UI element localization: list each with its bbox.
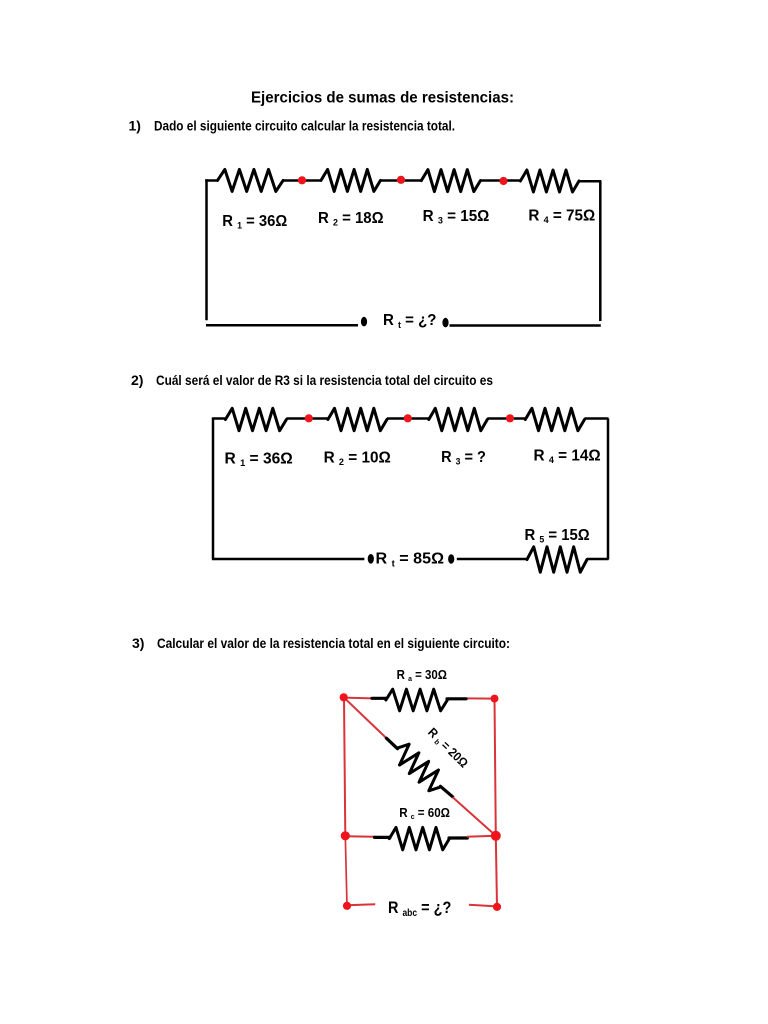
resistor R5 (15 ohm) <box>527 547 587 572</box>
svg-text:R t = 85Ω: R t = 85Ω <box>376 551 445 570</box>
svg-text:R t = ¿?: R t = ¿? <box>383 312 437 331</box>
node: red junction dot 3 <box>506 414 514 422</box>
wire: black lead right of Ra <box>447 697 466 700</box>
resistor R3 (unknown) <box>429 408 488 430</box>
resistor Ra (30 ohm) <box>386 689 448 711</box>
wire: circuit 2 top-left segment <box>212 417 225 420</box>
wire: circuit 2 left vertical <box>212 418 215 560</box>
node: red junction dot 1 <box>298 176 306 184</box>
svg-text:R 3 = 15Ω: R 3 = 15Ω <box>423 208 490 227</box>
svg-text:R 2 = 18Ω: R 2 = 18Ω <box>318 210 384 229</box>
wire: red bottom-right segment <box>469 905 497 907</box>
wire: red lead left of Ra <box>344 697 373 700</box>
wire: red lead left of Rc <box>345 835 375 838</box>
wire: circuit 1 segment R3-R4 <box>480 179 520 182</box>
wire: black lead right of Rc <box>449 836 467 839</box>
wire: red lead right of Rc <box>467 836 496 837</box>
svg-text:R 3 = ?: R 3 = ? <box>441 449 486 468</box>
svg-text:Dado el siguiente circuito cal: Dado el siguiente circuito calcular la r… <box>154 118 455 134</box>
wire: circuit 2 bottom-right segment <box>587 558 609 561</box>
wire: red bottom-left segment <box>347 904 375 905</box>
wire: black lead lower of Rb <box>440 786 452 797</box>
wire: red diagonal lower (Rb to node) <box>453 797 496 836</box>
wire: circuit 1 bottom-left segment <box>206 324 358 327</box>
resistor R3 (15 ohm) <box>421 170 480 192</box>
wire: black lead upper of Rb <box>386 738 397 749</box>
node: red junction dot 1 <box>305 414 313 422</box>
wire: circuit 2 segment R1-R2 <box>286 417 328 420</box>
wire: circuit 1 segment R2-R3 <box>380 179 421 182</box>
wire: red left vertical upper <box>344 697 345 836</box>
wire: circuit 1 top-left segment <box>205 179 218 182</box>
wire: circuit 2 right vertical <box>607 419 610 560</box>
node: terminal dot right (Rt) <box>442 318 448 328</box>
svg-text:R 4 = 14Ω: R 4 = 14Ω <box>534 447 601 466</box>
svg-text:R a = 30Ω: R a = 30Ω <box>397 668 447 683</box>
wire: circuit 2 bottom-left segment <box>212 558 364 561</box>
wire: black lead left of Rc <box>375 836 390 839</box>
wire: black lead left of Ra <box>372 697 387 700</box>
node: red dot bottom-left <box>343 902 351 910</box>
svg-text:R 1 = 36Ω: R 1 = 36Ω <box>222 213 287 232</box>
wire: circuit 2 segment R3-R4 <box>487 417 525 420</box>
svg-text:R b = 20Ω: R b = 20Ω <box>424 725 470 771</box>
node: terminal dot left (Rt) <box>361 317 367 327</box>
svg-text:1): 1) <box>129 118 141 134</box>
resistor R4 (14 ohm) <box>525 408 584 430</box>
svg-text:Ejercicios de sumas de resiste: Ejercicios de sumas de resistencias: <box>251 90 514 107</box>
svg-text:Calcular el valor de la resist: Calcular el valor de la resistencia tota… <box>157 635 510 651</box>
node: terminal dot right (Rt) <box>448 554 454 564</box>
resistor R4 (75 ohm) <box>520 170 579 192</box>
resistor R2 (18 ohm) <box>321 169 381 191</box>
resistor R1 (36 ohm) <box>225 408 286 430</box>
wire: red diagonal upper (to Rb) <box>344 697 388 739</box>
node: red dot top-left <box>340 693 348 701</box>
wire: red right vertical upper <box>495 699 496 836</box>
wire: circuit 1 top-right segment <box>579 180 601 183</box>
svg-text:R 4 = 75Ω: R 4 = 75Ω <box>528 207 595 226</box>
resistor Rb (20 ohm, diagonal) <box>390 740 448 795</box>
wire: red left vertical lower <box>345 836 347 906</box>
svg-text:Cuál será el valor de R3 si la: Cuál será el valor de R3 si la resistenc… <box>156 372 493 388</box>
node: red junction dot 2 <box>397 176 405 184</box>
wire: circuit 1 right vertical <box>599 181 602 322</box>
node: red junction dot 2 <box>404 414 412 422</box>
svg-text:R 2 = 10Ω: R 2 = 10Ω <box>324 450 391 469</box>
svg-text:R 5 = 15Ω: R 5 = 15Ω <box>525 527 590 546</box>
wire: circuit 1 segment R1-R2 <box>283 179 321 182</box>
node: red junction dot 3 <box>499 177 507 185</box>
node: red dot top-right <box>491 695 499 703</box>
resistor Rc (60 ohm) <box>389 827 449 849</box>
svg-text:R 1 = 36Ω: R 1 = 36Ω <box>225 451 293 470</box>
resistor R1 (36 ohm) <box>218 169 284 191</box>
node: terminal dot left (Rt) <box>368 554 374 564</box>
wire: circuit 2 top-right segment <box>585 417 609 420</box>
node: red dot mid-left <box>341 831 350 840</box>
svg-text:R abc = ¿?: R abc = ¿? <box>388 898 451 919</box>
label Rb = 20Ω (rotated) <box>424 725 470 771</box>
resistor R2 (10 ohm) <box>328 408 387 430</box>
node: red dot mid-right <box>491 831 501 841</box>
wire: red right vertical lower <box>496 836 497 907</box>
svg-text:R c = 60Ω: R c = 60Ω <box>399 805 450 821</box>
svg-text:3): 3) <box>132 635 144 651</box>
wire: circuit 2 segment R2-R3 <box>387 417 429 420</box>
node: red dot bottom-right <box>493 903 501 911</box>
svg-text:2): 2) <box>131 372 143 388</box>
wire: red lead right of Ra <box>466 697 495 699</box>
wire: circuit 2 bottom middle segment <box>457 558 527 561</box>
wire: circuit 1 bottom-right segment <box>450 324 601 327</box>
wire: circuit 1 left vertical <box>205 179 208 320</box>
